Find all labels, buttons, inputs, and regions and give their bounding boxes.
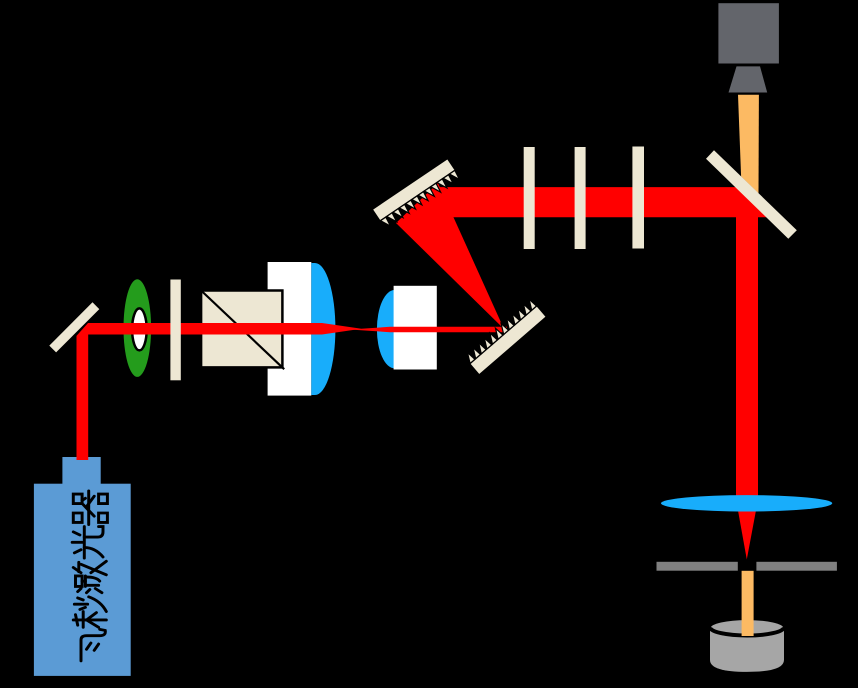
- sample cup rim front arc: [710, 627, 784, 635]
- waveplate slab: [170, 280, 180, 381]
- diffraction grating upper: [372, 159, 459, 227]
- iris white aperture: [132, 308, 147, 350]
- focusing lens ellipse: [661, 495, 832, 511]
- sample cup rim: [710, 619, 784, 635]
- lens assembly 2 white mount: [394, 286, 437, 370]
- red beam converging into focus: [322, 323, 362, 335]
- red beam: laser vertical + elbow + main horizontal to lens: [77, 323, 323, 460]
- etalon plate 2: [575, 147, 586, 249]
- red beam from focus to grating (thin): [350, 327, 508, 332]
- lens assembly 1 blue lens element: [311, 263, 335, 395]
- beamsplitter cube diagonal: [201, 291, 284, 370]
- orange fluorescence beam camera-to-mirror: [738, 95, 759, 194]
- etalon plate 1: [524, 147, 535, 249]
- dichroic mirror top-right: [706, 150, 797, 239]
- beamsplitter cube: [201, 291, 282, 368]
- red converging beam to slit: [737, 505, 757, 560]
- camera lens mount trapezoid: [729, 66, 768, 92]
- slit right blade: [756, 562, 837, 571]
- laser unit body: [34, 484, 131, 676]
- red dispersed fan between gratings: [396, 183, 504, 329]
- diffraction grating lower: [468, 299, 547, 375]
- lens assembly 1 white mount: [268, 262, 312, 396]
- steering mirror bottom-left: [49, 302, 99, 352]
- camera body: [718, 3, 779, 63]
- red vertical beam mirror to lens: [736, 185, 758, 504]
- orange beam below slit into cup: [742, 571, 754, 636]
- iris green ring: [124, 279, 152, 377]
- label text 飞秒激光器 (femtosecond laser), drawn as stroke glyphs, rotated 90: [72, 491, 107, 661]
- etalon plate 3: [632, 147, 644, 249]
- red wide beam grating to mirror: [437, 187, 769, 217]
- slit left blade: [657, 562, 738, 571]
- lens assembly 2 blue lens element: [377, 290, 395, 368]
- sample cup body: [710, 627, 784, 672]
- laser output port: [62, 457, 100, 484]
